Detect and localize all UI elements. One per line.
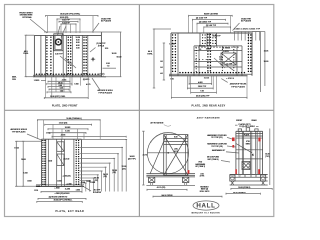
view 1 left dimension 48.5 overall xyxy=(23,35,34,76)
view 3 plate side outline xyxy=(36,139,84,186)
view 4 movable base note xyxy=(200,185,210,193)
view 1 note: radius typ 4 places xyxy=(90,43,106,52)
view 4 red markers on machine left edge xyxy=(232,138,235,142)
view 2 right dimension stack xyxy=(252,32,268,93)
view 1 bearing cutout with ring xyxy=(54,34,63,51)
view 4 tilt wheel circle xyxy=(147,132,188,173)
view 3 note: anchor holes top left xyxy=(10,128,42,140)
view 4 bottom dims of front view xyxy=(226,187,272,194)
view 4 texts right of base xyxy=(195,162,206,178)
view 4 red marker on base xyxy=(0,0,1,1)
view 3 note: dia typ 8 places xyxy=(84,187,102,194)
view 1 inner dimension texts xyxy=(55,37,80,68)
view 4 bottom dims of tilt assembly xyxy=(147,187,222,198)
view 3 top dimension stack xyxy=(38,117,127,139)
view 4 right dimension xyxy=(265,129,270,186)
view 4 red markers at front view base xyxy=(235,169,237,174)
view 2 left dimension 44.5 overall xyxy=(147,29,174,88)
company logo oval HALL xyxy=(192,201,221,214)
view 2 note: hole spec xyxy=(233,18,252,30)
view 2 top dimension stack xyxy=(189,13,233,33)
view 1 hole columns xyxy=(36,36,104,75)
sheet border frame xyxy=(5,5,274,217)
view 3 bottom dimension stack xyxy=(37,181,95,203)
view 2 plate rear outline xyxy=(169,33,252,76)
quadrant divider horizontal xyxy=(5,109,274,111)
view 4 hatched center block xyxy=(242,141,254,170)
view 4 red marker on machine right edge xyxy=(258,138,260,142)
view 4 hardware list entries xyxy=(207,134,239,162)
view 2 hole columns xyxy=(172,34,252,74)
view 4 red marker on base xyxy=(188,170,190,174)
view 2 note: anchor holes xyxy=(221,79,247,89)
view 3 staircase dimension fan xyxy=(34,140,136,192)
view 3 left dimension stack xyxy=(14,141,41,186)
view 2 bottom dimension stack xyxy=(170,76,247,99)
view 1 bottom dimension stack xyxy=(34,77,91,99)
view 1 note: anchor holes xyxy=(92,78,114,95)
view 3 caption xyxy=(55,210,84,213)
view 4 red markers on machine left edge xyxy=(0,0,1,1)
view 4 notes above front view xyxy=(235,119,259,128)
view 4 front view base and casters xyxy=(230,174,268,185)
view 1 note: hole spec top right xyxy=(93,18,112,32)
view 1 top dimension stack xyxy=(46,13,98,37)
view 1 caption xyxy=(52,104,78,107)
view 3 hole columns xyxy=(42,140,79,185)
view 1 note: front sheet optional xyxy=(19,12,47,33)
view 4 rotation note with arc leader xyxy=(150,122,171,127)
view 2 caption xyxy=(192,105,226,108)
view 4 base of tilt assembly xyxy=(146,174,195,186)
view 2 inner dimension texts xyxy=(199,46,236,70)
view 1 material note xyxy=(12,76,17,81)
view 4 machine front view outline xyxy=(236,128,263,175)
view 4 heading xyxy=(197,116,221,119)
view 1 plate front outline xyxy=(33,32,121,77)
quadrant divider vertical xyxy=(138,5,140,217)
view 4 red marker on machine right edge xyxy=(0,0,1,1)
view 1 right dimension stack xyxy=(103,32,122,77)
view 4 left dimension of wheel xyxy=(142,131,147,185)
view 4 tower frame with x-brace xyxy=(148,135,189,176)
view 2 top right pitch dimension row xyxy=(234,29,261,41)
